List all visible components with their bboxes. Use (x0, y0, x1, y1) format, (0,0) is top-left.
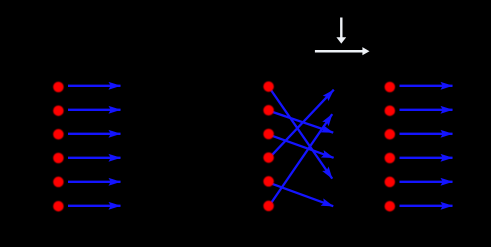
node L2 (53, 105, 64, 116)
node M1 (263, 81, 274, 92)
wire: left arrow row 3 (68, 133, 121, 135)
wire: left arrow row 4 (68, 157, 121, 159)
node L1 (53, 82, 64, 93)
node M4 (263, 152, 274, 163)
node R6 (385, 201, 396, 212)
node R2 (385, 105, 396, 116)
node L4 (53, 153, 64, 164)
wire: left arrow row 6 (68, 205, 121, 207)
node L3 (53, 129, 64, 140)
wire: right arrow row 3 (400, 133, 453, 135)
node M6 (263, 201, 274, 212)
node M5 (263, 176, 274, 187)
wire: left arrow row 5 (68, 181, 121, 183)
wire: right arrow row 6 (400, 205, 453, 207)
wire: left arrow row 1 (68, 85, 121, 87)
white down arrow (336, 18, 346, 44)
wire: middle permutation arrow 3 to 4 (269, 135, 334, 158)
wire: left arrow row 2 (68, 109, 121, 111)
wire: right arrow row 4 (400, 157, 453, 159)
node R1 (385, 82, 396, 93)
wire: right arrow row 1 (400, 85, 453, 87)
wire: right arrow row 2 (400, 109, 453, 111)
node M2 (263, 105, 274, 116)
node L6 (53, 201, 64, 212)
node R3 (385, 129, 396, 140)
white right arrow (315, 47, 370, 55)
node M3 (263, 129, 274, 140)
wire: middle permutation arrow 6 to 2 (269, 114, 333, 207)
wire: middle permutation arrow 4 to 1 (269, 90, 334, 159)
wire: middle permutation arrow 2 to 3 (269, 111, 334, 133)
wire: right arrow row 5 (400, 181, 453, 183)
node R4 (385, 153, 396, 164)
wire: middle permutation arrow 5 to 6 (269, 183, 334, 207)
node L5 (53, 177, 64, 188)
wire: middle permutation arrow 1 to 5 (269, 87, 333, 179)
node R5 (385, 177, 396, 188)
